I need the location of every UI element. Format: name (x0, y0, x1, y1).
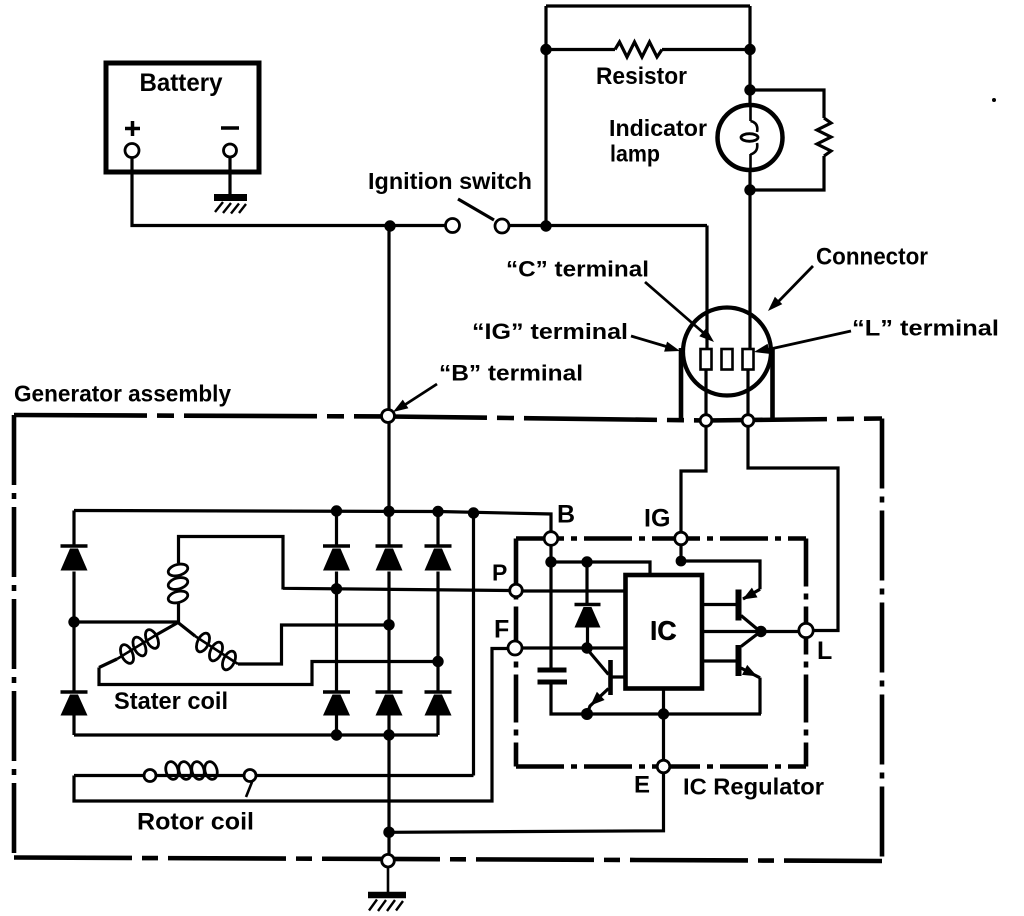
svg-text:B: B (557, 501, 575, 529)
svg-text:Resistor: Resistor (596, 63, 687, 90)
svg-text:IC: IC (650, 616, 676, 646)
svg-text:“B” terminal: “B” terminal (439, 361, 583, 386)
svg-text:Battery: Battery (140, 69, 223, 97)
svg-text:L: L (817, 637, 832, 665)
svg-text:IC Regulator: IC Regulator (683, 774, 824, 800)
svg-text:Generator assembly: Generator assembly (14, 381, 231, 407)
svg-text:“L” terminal: “L” terminal (852, 316, 999, 341)
svg-text:Ignition switch: Ignition switch (368, 168, 532, 194)
svg-text:Stater coil: Stater coil (114, 688, 228, 715)
svg-text:E: E (634, 772, 650, 799)
svg-text:Rotor coil: Rotor coil (137, 809, 254, 836)
svg-text:F: F (494, 616, 509, 644)
svg-text:P: P (492, 560, 507, 586)
svg-text:IG: IG (644, 505, 670, 533)
svg-text:“C” terminal: “C” terminal (506, 257, 649, 282)
svg-text:Indicator: Indicator (609, 115, 707, 141)
svg-text:lamp: lamp (610, 141, 660, 167)
svg-text:Connector: Connector (816, 244, 928, 271)
svg-text:“IG” terminal: “IG” terminal (472, 319, 628, 344)
